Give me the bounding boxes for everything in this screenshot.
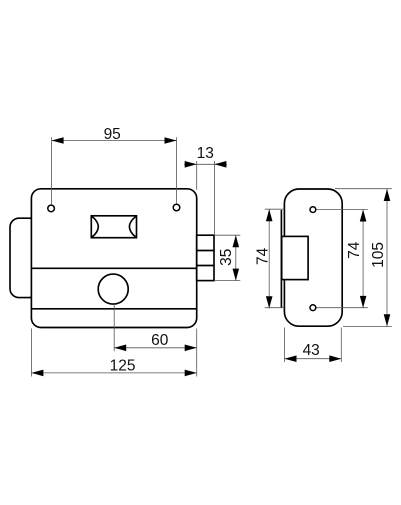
case divider line upper	[31, 267, 196, 269]
dim 13 left extension	[196, 161, 198, 190]
dim 95 right extension	[176, 137, 178, 204]
svg-text:43: 43	[303, 342, 320, 359]
dim 74 right bottom arrow	[360, 296, 367, 308]
dim 74 left bottom arrow	[266, 296, 273, 308]
dim 125 line	[31, 372, 196, 374]
dim 74 right bottom extension	[316, 307, 368, 309]
svg-text:74: 74	[254, 247, 271, 265]
dim 74 left top arrow	[266, 209, 273, 221]
cylinder circle	[98, 274, 128, 304]
dim 74 right line	[362, 210, 364, 308]
dim 95 left arrow	[52, 137, 64, 144]
svg-text:105: 105	[370, 242, 387, 268]
svg-text:60: 60	[151, 332, 169, 349]
case divider line lower	[31, 308, 196, 310]
dim 60 left arrow	[114, 345, 126, 352]
dim 95 line	[52, 140, 177, 142]
svg-text:74: 74	[346, 241, 363, 259]
dim 35 bottom arrow	[233, 269, 240, 281]
dim 125 left arrow	[31, 370, 43, 377]
dim 35 line	[235, 235, 237, 280]
svg-text:125: 125	[110, 358, 136, 375]
handle boss right arc	[129, 216, 136, 237]
dim 60 left extension from cylinder	[113, 304, 115, 351]
dim 105 bottom extension	[343, 325, 392, 327]
lock case outline	[31, 189, 196, 328]
dim 35 bottom extension	[214, 280, 240, 282]
latch bolt block	[197, 235, 214, 280]
dim 105 top extension	[335, 188, 392, 190]
dim 13 right arrow	[214, 161, 226, 168]
dim 13 right extension	[213, 161, 215, 235]
dim 43 left arrow	[285, 355, 297, 362]
dim 13 left arrow	[185, 161, 197, 168]
plate bottom hole	[310, 305, 316, 311]
latch bolt segment line 2	[197, 265, 214, 267]
handle boss left arc	[92, 216, 99, 237]
dim 35 top extension	[214, 234, 240, 236]
dim 95 left extension	[51, 137, 53, 205]
dim 60 right arrow	[185, 345, 197, 352]
dim 74 left top extension	[265, 208, 285, 210]
dim 95 right arrow	[165, 137, 177, 144]
latch keeper box	[282, 236, 308, 279]
folded lip edge	[280, 210, 282, 308]
svg-text:35: 35	[218, 249, 235, 266]
dim 43 left extension	[284, 328, 286, 363]
svg-text:95: 95	[104, 126, 121, 143]
dim 105 bottom arrow	[384, 314, 391, 326]
left screw hole	[48, 205, 55, 212]
svg-text:13: 13	[197, 145, 214, 162]
plate top hole	[310, 207, 316, 213]
dim 125/60 right extension	[196, 329, 198, 377]
left bolt-guard protrusion	[10, 218, 38, 297]
dim 13 line	[184, 163, 227, 165]
dim 74 left line	[268, 209, 270, 308]
dim 60 line	[114, 347, 197, 349]
right screw hole	[173, 204, 180, 211]
dim 105 top arrow	[384, 189, 391, 201]
dim 35 top arrow	[233, 235, 240, 247]
dim 125 left extension	[30, 329, 32, 377]
dim 125 right arrow	[185, 370, 197, 377]
dim 43 line	[285, 358, 342, 360]
dim 74 right top extension	[316, 209, 368, 211]
dim 105 line	[386, 189, 388, 326]
dim 43 right arrow	[329, 355, 341, 362]
dim 43 right extension	[340, 328, 342, 363]
strike plate outline	[284, 189, 342, 326]
dim 74 left bottom extension	[265, 307, 285, 309]
handle boss rectangle	[91, 216, 136, 238]
dim 74 right top arrow	[360, 210, 367, 222]
latch bolt segment line 1	[197, 250, 214, 252]
